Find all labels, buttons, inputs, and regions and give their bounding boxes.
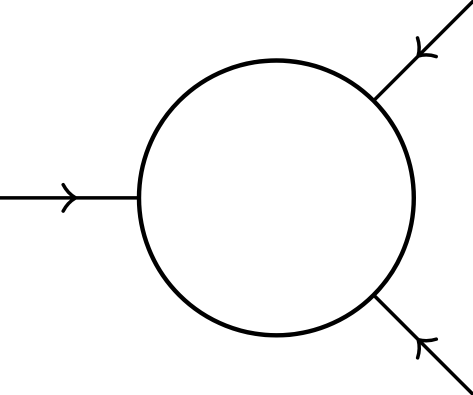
wire: incoming top-right propagator line [355,0,473,119]
node: central blob circle [139,61,414,336]
arrowhead on bottom-right line (pointing up-left) [409,330,436,357]
arrowhead on left line (pointing right) [63,185,75,211]
wire: incoming left propagator line [0,196,170,200]
wire: incoming bottom-right propagator line [355,276,473,395]
arrowhead on top-right line (pointing down-left) [409,38,436,65]
